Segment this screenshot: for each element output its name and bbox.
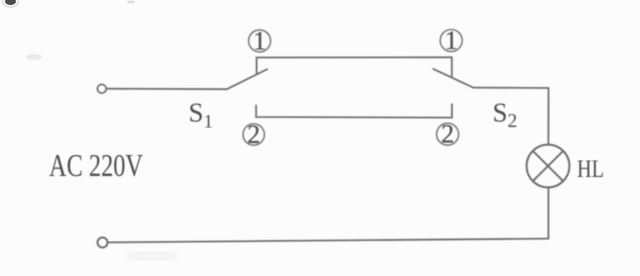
wire bottom (to bottom terminal) [108, 239, 548, 243]
node 2 of S1 (circled 2) [243, 120, 264, 149]
terminal (AC source, top-left) [97, 84, 106, 93]
node 1 of S1 (circled 1) [249, 26, 271, 55]
wire from top terminal to S1 pivot [107, 88, 227, 91]
node 2 of S2 (circled 2) [437, 120, 459, 149]
node 1 of S2 (circled 1) [440, 26, 462, 55]
wire bottom interconnect (S1 contact 2 to S2 contact 2) [256, 104, 452, 117]
switch S2 blade [433, 69, 473, 88]
wire top interconnect (S1 contact 1 to S2 contact 1) [257, 57, 452, 76]
wire from S2 pivot to right side [473, 87, 548, 89]
svg-text:AC 220V: AC 220V [49, 147, 143, 183]
wire right vertical (lamp to bottom) [547, 187, 549, 238]
lamp HL symbol [527, 145, 570, 188]
wire right vertical (S2 to lamp) [547, 88, 549, 145]
svg-text:1: 1 [253, 26, 266, 55]
svg-text:2: 2 [247, 120, 260, 149]
svg-text:HL: HL [577, 156, 604, 183]
svg-text:1: 1 [445, 26, 458, 55]
svg-text:2: 2 [441, 120, 454, 149]
terminal (AC source, bottom-left) [98, 238, 108, 248]
switch S1 blade [227, 69, 267, 89]
scan speck top-left [5, 0, 16, 5]
